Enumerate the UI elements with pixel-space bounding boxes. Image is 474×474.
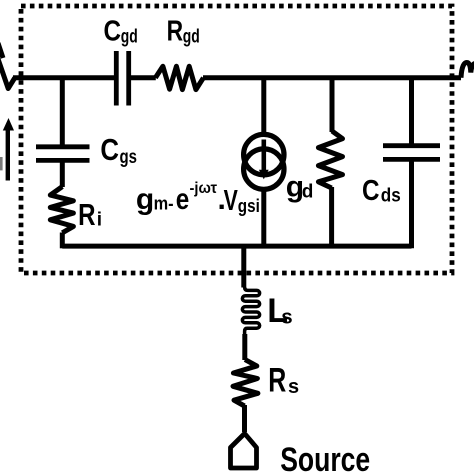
svg-text:ds: ds bbox=[381, 186, 401, 207]
label gd bbox=[286, 170, 314, 203]
label Cgs bbox=[100, 132, 137, 168]
label Cgd bbox=[104, 16, 138, 48]
svg-text:R: R bbox=[78, 197, 95, 232]
svg-text:C: C bbox=[362, 175, 380, 207]
capacitor C_gd bbox=[116, 51, 128, 106]
wire: Cgs branch from gate line bbox=[60, 78, 65, 145]
label Ri bbox=[78, 197, 102, 232]
label gm e -jwt Vgsi bbox=[136, 180, 260, 217]
svg-text:V: V bbox=[224, 185, 239, 217]
wire: Cds top lead bbox=[409, 78, 414, 146]
wire: Rs to source terminal bbox=[242, 405, 247, 432]
wire: gate line left segment bbox=[13, 75, 115, 80]
svg-text:d: d bbox=[302, 182, 314, 203]
wire: between Cgd and Rgd bbox=[131, 75, 156, 80]
svg-text:-jωτ: -jωτ bbox=[190, 180, 218, 197]
current source gm circles bbox=[244, 134, 284, 174]
wire: Ls to Rs bbox=[242, 334, 247, 360]
wire: gd bottom lead bbox=[329, 187, 334, 248]
wire: bottom rail bbox=[62, 244, 411, 249]
svg-text:s: s bbox=[288, 376, 299, 398]
source terminal pentagon bbox=[231, 434, 257, 469]
svg-text:gd: gd bbox=[121, 26, 138, 47]
wire: Ri to bottom rail bbox=[60, 233, 65, 249]
resistor R_i bbox=[50, 187, 73, 233]
label Cds bbox=[362, 175, 401, 207]
wire: drain line to right edge bbox=[203, 75, 461, 80]
resistor (partial, cut at left edge) bbox=[0, 43, 15, 89]
svg-text:g: g bbox=[136, 183, 154, 216]
resistor R_s bbox=[233, 360, 258, 406]
resistor g_d bbox=[318, 131, 342, 188]
svg-text:R: R bbox=[268, 361, 286, 399]
svg-text:i: i bbox=[97, 210, 102, 231]
svg-text:C: C bbox=[100, 132, 119, 167]
svg-text:gsi: gsi bbox=[238, 195, 260, 216]
svg-text:s: s bbox=[281, 306, 292, 329]
arrow Vgsi (left edge) bbox=[6, 129, 10, 181]
wire: gd top lead bbox=[330, 78, 335, 132]
svg-text:R: R bbox=[167, 16, 184, 48]
wire: source lead through box bbox=[241, 244, 246, 288]
wire: Cgs to Ri bbox=[60, 162, 65, 187]
label Rgd bbox=[167, 16, 200, 48]
inductor L_s bbox=[242, 287, 259, 335]
svg-text:m-: m- bbox=[154, 193, 174, 213]
partial grey glyph at left edge bbox=[0, 157, 3, 170]
svg-text:gs: gs bbox=[120, 147, 138, 168]
svg-text:gd: gd bbox=[183, 26, 200, 47]
svg-text:C: C bbox=[104, 16, 122, 48]
resistor R_gd bbox=[155, 66, 203, 89]
wire: current source bottom lead bbox=[261, 190, 266, 248]
wire: Cds bottom lead bbox=[409, 161, 414, 248]
dashed box: intrinsic device boundary bbox=[21, 6, 452, 273]
svg-text:e: e bbox=[176, 183, 190, 216]
current source arrow bbox=[261, 140, 266, 172]
label Rs bbox=[268, 361, 299, 399]
svg-text:Source: Source bbox=[280, 441, 370, 474]
label Ls bbox=[267, 292, 292, 330]
inductor (partial, cut at right edge) bbox=[461, 63, 474, 78]
wire: current source top lead bbox=[261, 78, 266, 134]
capacitor C_gs bbox=[36, 147, 90, 161]
capacitor C_ds bbox=[383, 146, 440, 160]
